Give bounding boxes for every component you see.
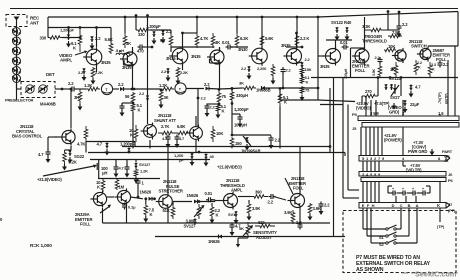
transistor Q15 2N329A b xyxy=(114,188,130,205)
cap 4.7 ps xyxy=(230,223,235,237)
svg-text:2.2: 2.2 xyxy=(296,220,302,225)
cap 2.2 ef3 xyxy=(319,202,324,216)
connector bar J6 xyxy=(359,172,446,177)
resistor 3K s3 xyxy=(211,33,215,48)
connector bar J7 xyxy=(359,203,450,209)
resistor 75 e6 xyxy=(300,86,305,101)
svg-text:J6: J6 xyxy=(448,172,453,177)
resistor 3K s2 xyxy=(123,33,127,48)
zener pair SV121 xyxy=(384,84,393,90)
resistor 3.9K ef3 xyxy=(308,203,313,221)
zener 2.2 e6 xyxy=(297,62,304,68)
cap 2.2 pre xyxy=(70,87,77,92)
svg-text:2.2: 2.2 xyxy=(68,81,74,86)
wire q3 out xyxy=(171,47,210,70)
svg-text:4.7: 4.7 xyxy=(119,166,125,171)
wire 232b xyxy=(231,101,234,114)
svg-text:1N626: 1N626 xyxy=(208,239,220,244)
svg-text:75: 75 xyxy=(222,94,227,99)
wire q11 emitter xyxy=(70,146,72,147)
rf row wire xyxy=(61,88,70,91)
svg-text:3N35: 3N35 xyxy=(101,60,111,65)
svg-text:330μH: 330μH xyxy=(236,93,248,98)
resistor 270 xyxy=(362,94,378,98)
resistor 390 xyxy=(238,195,268,199)
zener 2.2 s1 xyxy=(90,36,95,50)
svg-text:40: 40 xyxy=(210,154,215,159)
resistor 3.3K xyxy=(364,28,399,32)
connector bar J8 xyxy=(359,156,450,162)
svg-text:390: 390 xyxy=(255,190,262,195)
cap 1200 c xyxy=(232,114,243,128)
svg-text:1.2K: 1.2K xyxy=(159,83,167,88)
q11 wires xyxy=(55,88,72,137)
svg-text:J5: J5 xyxy=(352,126,357,131)
svg-text:P5: P5 xyxy=(352,112,358,117)
svg-text:4.7K: 4.7K xyxy=(200,36,208,41)
drop to Q12 xyxy=(146,14,149,124)
junction top rail xyxy=(317,16,320,100)
wire 280 down xyxy=(279,106,281,149)
rail stage1 sub xyxy=(48,17,111,38)
svg-text:THRESHOLD: THRESHOLD xyxy=(362,39,387,44)
q2 wires xyxy=(119,47,134,89)
varactor V6 xyxy=(12,75,21,83)
rec antenna dashed box xyxy=(6,15,27,27)
svg-text:0: 0 xyxy=(0,217,3,222)
zener 2.2 e5 xyxy=(247,66,252,80)
wire q18 xyxy=(299,147,301,224)
svg-text:3N35: 3N35 xyxy=(320,64,330,69)
mid rail B xyxy=(88,152,345,154)
svg-text:SV127: SV127 xyxy=(184,224,197,229)
svg-text:330: 330 xyxy=(40,36,47,41)
transistor Q17 threshold xyxy=(221,192,238,210)
q4 wires xyxy=(210,47,221,89)
resistor 5.6K b xyxy=(260,33,264,48)
resistor 9.1K xyxy=(78,26,82,52)
svg-text:4: 4 xyxy=(402,156,405,161)
switch S0 xyxy=(386,225,397,230)
svg-text:3.9K: 3.9K xyxy=(252,206,260,211)
resistor 4.7K a xyxy=(195,33,199,48)
wire right edge v xyxy=(448,60,455,114)
svg-text:270: 270 xyxy=(365,89,372,94)
wires into J5 xyxy=(366,96,455,116)
transistor Q13 shunt b xyxy=(187,125,203,142)
svg-text:4.7: 4.7 xyxy=(415,85,421,90)
resistor 1M xyxy=(115,179,119,191)
resistor 330 b xyxy=(136,28,150,32)
svg-text:SV121: SV121 xyxy=(389,76,402,81)
cap 4.7 r xyxy=(409,85,414,98)
transistor Q8 EF xyxy=(351,17,370,65)
transistor Q4 3N35 xyxy=(207,48,224,66)
thermistor T2 xyxy=(175,83,186,94)
diode 2.2 b xyxy=(206,87,220,91)
svg-text:DET: DET xyxy=(46,72,55,77)
resistor 3.9K br xyxy=(291,210,295,224)
svg-text:GRD): GRD) xyxy=(389,110,400,115)
svg-text:FOLL: FOLL xyxy=(355,68,366,73)
svg-text:4.7: 4.7 xyxy=(38,152,44,157)
switch wires right xyxy=(396,208,417,243)
svg-text:5.6K: 5.6K xyxy=(265,36,273,41)
svg-text:ADJUST: ADJUST xyxy=(256,235,272,240)
choke 100uH m xyxy=(97,160,99,179)
svg-text:D: D xyxy=(392,203,395,208)
svg-text:PWR GRD: PWR GRD xyxy=(408,149,427,154)
svg-text:STRETCHER: STRETCHER xyxy=(159,189,183,194)
cap 4.7 sb xyxy=(175,135,180,149)
transistor Q5 3N35 xyxy=(249,46,268,66)
gnd sens xyxy=(236,238,248,248)
arrow 2n329a xyxy=(100,205,111,214)
tuning varactor V4 xyxy=(12,57,21,65)
svg-text:T: T xyxy=(179,87,182,91)
cap branch 56 xyxy=(120,103,134,117)
cap 4.7 m2a xyxy=(114,160,119,178)
cap 2.2 th xyxy=(269,194,287,200)
feeder vertical a xyxy=(333,78,335,237)
cap 40 xyxy=(204,154,209,167)
transistor Q1 3N35 xyxy=(83,47,102,67)
svg-text:+21.9(VIDEO): +21.9(VIDEO) xyxy=(217,165,242,170)
wire right col a xyxy=(362,78,401,105)
svg-text:AS SHOWN: AS SHOWN xyxy=(356,267,384,273)
wire vid tr xyxy=(403,161,406,166)
zener SV127 b xyxy=(234,211,239,224)
wire cap a xyxy=(67,26,70,34)
svg-text:2.2K: 2.2K xyxy=(180,70,188,75)
cap 4.7 m2b xyxy=(125,160,130,178)
zener SV127 m xyxy=(134,160,138,169)
drop to Q13 xyxy=(197,89,200,126)
svg-text:2,200: 2,200 xyxy=(257,66,267,71)
wire 232 down xyxy=(231,87,234,91)
resistor 2.7K xyxy=(158,131,176,135)
resistor 1.2K m xyxy=(134,169,139,184)
rail seg loop2 xyxy=(135,14,138,30)
transistor Q11 crystal bias xyxy=(59,128,75,145)
svg-text:2.2: 2.2 xyxy=(286,68,292,73)
arrow ef3 xyxy=(285,178,293,194)
svg-text:K: K xyxy=(138,108,141,113)
border frame top line xyxy=(10,8,458,10)
gnd video grd xyxy=(392,103,397,110)
svg-text:1 6: 1 6 xyxy=(438,111,444,116)
cap 1200pF b xyxy=(152,31,157,45)
svg-text:(TP): (TP) xyxy=(437,224,445,229)
svg-text:1,200pF: 1,200pF xyxy=(146,24,161,29)
svg-text:2.2 K: 2.2 K xyxy=(300,36,309,41)
resistor 9.1K b xyxy=(150,30,173,47)
connector bar J5 xyxy=(362,123,459,128)
wire q10 right xyxy=(428,12,458,61)
node dot rf1 xyxy=(133,88,136,91)
svg-text:3N35: 3N35 xyxy=(122,65,132,70)
cap 2.2 tr xyxy=(397,24,402,38)
wires J5 to J8 xyxy=(361,127,403,156)
cap 4.7 sa xyxy=(166,135,171,149)
cap 2.2 mid xyxy=(281,67,286,89)
wire T1 to diode xyxy=(113,88,119,90)
svg-text:1,200pF: 1,200pF xyxy=(234,107,249,112)
cap 22uF xyxy=(403,100,408,113)
rf row wire 1b xyxy=(76,88,86,90)
transistor Q14 2N329A a xyxy=(90,190,106,207)
wire ant to preselector xyxy=(17,84,22,89)
zener SV127 r xyxy=(391,84,399,96)
preselector varactor 1 xyxy=(25,85,35,93)
svg-text:5K: 5K xyxy=(239,226,244,231)
resistor 620 xyxy=(255,224,275,228)
svg-text:1K: 1K xyxy=(390,67,395,72)
zener 1N1995 xyxy=(243,136,251,151)
svg-text:8: 8 xyxy=(438,156,441,161)
resistor 2200 xyxy=(271,64,276,85)
svg-text:AMPL: AMPL xyxy=(60,58,73,63)
wire q7 xyxy=(318,40,352,56)
svg-text:3N35: 3N35 xyxy=(166,56,176,61)
svg-text:4.7: 4.7 xyxy=(97,142,103,147)
svg-text:K: K xyxy=(222,109,225,114)
svg-text:R=K 1,000: R=K 1,000 xyxy=(30,243,52,249)
wire T2 out xyxy=(186,88,204,90)
svg-text:1,200pF: 1,200pF xyxy=(60,28,75,33)
svg-text:K: K xyxy=(432,68,435,72)
transistor Q9 switch xyxy=(392,48,406,63)
resistor 10K sb xyxy=(211,126,215,142)
connector bar P5 xyxy=(358,116,459,121)
svg-text:1: 1 xyxy=(142,181,145,186)
svg-text:T: T xyxy=(105,88,108,92)
resistor 6.8K xyxy=(176,131,190,135)
rail AB join xyxy=(329,147,331,153)
resistor 3K b xyxy=(159,89,164,109)
coil 330uH xyxy=(230,91,234,101)
node 199 xyxy=(198,151,201,154)
svg-text:SWITCH: SWITCH xyxy=(411,44,427,49)
svg-text:2.2: 2.2 xyxy=(305,57,311,62)
svg-text:1.2K: 1.2K xyxy=(140,169,148,174)
resistor 3K row xyxy=(242,86,256,90)
gnd pwr grd xyxy=(430,149,435,156)
rf row wire 2 xyxy=(134,88,160,90)
svg-text:1N626: 1N626 xyxy=(140,190,152,195)
svg-text:SeekIC.com: SeekIC.com xyxy=(415,270,457,279)
svg-text:F: F xyxy=(367,203,370,208)
feeder wire c xyxy=(320,104,343,106)
resistor 2.2K e1 xyxy=(91,67,96,85)
svg-text:H: H xyxy=(372,203,375,208)
svg-text:2.2: 2.2 xyxy=(204,82,210,87)
diode 1N986B xyxy=(262,86,282,90)
pot 5K sensitivity xyxy=(243,222,253,238)
resistor 56 xyxy=(131,92,135,103)
wire K TP xyxy=(439,208,441,222)
svg-text:150: 150 xyxy=(235,141,242,146)
svg-text:A: A xyxy=(416,203,419,208)
svg-text:C: C xyxy=(400,203,403,208)
svg-text:2.7K: 2.7K xyxy=(161,124,169,129)
cap 0.01 ps xyxy=(206,197,215,202)
svg-text:+21.8(VIDEO): +21.8(VIDEO) xyxy=(37,177,62,182)
svg-text:2.2: 2.2 xyxy=(118,82,124,87)
svg-text:6.8K: 6.8K xyxy=(177,124,185,129)
cap 4.7 m xyxy=(105,143,110,156)
svg-text:2.2: 2.2 xyxy=(78,70,84,75)
cap 2.2 ef8 xyxy=(378,57,383,64)
coil .5uH xyxy=(116,53,130,55)
svg-text:3N30: 3N30 xyxy=(238,47,248,52)
svg-text:SV127: SV127 xyxy=(139,162,151,167)
svg-text:330: 330 xyxy=(138,32,145,37)
svg-text:3K: 3K xyxy=(126,41,131,46)
tuning varactor V3 xyxy=(12,47,21,55)
svg-text:K: K xyxy=(130,133,133,138)
transistor Q6 3N35 xyxy=(284,47,302,66)
svg-text:SG22: SG22 xyxy=(74,154,85,159)
svg-text:2.2: 2.2 xyxy=(241,66,247,71)
coil 100uH c xyxy=(231,114,234,136)
transistor Q12 shunt a xyxy=(141,123,157,140)
wire 5.1K down xyxy=(132,112,134,149)
cap 4.7 cb xyxy=(46,137,58,163)
resistor 5.1K e6 xyxy=(300,74,304,84)
svg-text:+: + xyxy=(402,187,404,191)
svg-text:470: 470 xyxy=(137,49,144,54)
resistor 7.5K bl xyxy=(143,199,148,223)
transistor Q10 2N697 xyxy=(417,46,431,61)
switch S2 xyxy=(386,239,397,244)
thermistor T1 xyxy=(101,83,112,94)
resistor 1K q xyxy=(394,62,398,78)
wire bl2 xyxy=(137,179,140,199)
rf row wire 3 xyxy=(219,87,242,90)
resistor 15K xyxy=(300,67,304,75)
diode 2.2 a xyxy=(120,87,134,91)
resistor 51K xyxy=(171,202,175,219)
rail drop s6 xyxy=(296,16,299,33)
svg-text:1: 1 xyxy=(366,156,369,161)
svg-text:2.2: 2.2 xyxy=(324,203,330,208)
wire preselector out xyxy=(55,88,62,90)
rail drop s3 xyxy=(183,16,199,33)
svg-text:9K: 9K xyxy=(160,38,165,43)
resistor 6.2K xyxy=(235,33,239,48)
resistor 1.2K b xyxy=(160,87,174,91)
svg-text:MA406B: MA406B xyxy=(40,102,56,107)
wire antenna down xyxy=(16,27,18,101)
resistor 2.2K e3 xyxy=(176,67,181,85)
wire q6 xyxy=(295,32,298,48)
zener 2.2 drop xyxy=(146,95,150,101)
svg-text:0.01: 0.01 xyxy=(340,40,348,45)
cap 470 xyxy=(138,45,145,50)
resistor 2.2K s6 xyxy=(295,33,299,48)
svg-text:0.1μ: 0.1μ xyxy=(128,205,136,210)
svg-text:2.2: 2.2 xyxy=(268,200,274,205)
svg-text:+: + xyxy=(422,187,424,191)
zener SG22 xyxy=(68,150,73,164)
svg-text:2: 2 xyxy=(374,156,377,161)
diode 1N626 b xyxy=(173,200,215,204)
mid rail C xyxy=(98,178,160,180)
svg-text:3: 3 xyxy=(370,156,373,161)
svg-text:SHUNT ATT: SHUNT ATT xyxy=(154,118,177,123)
svg-text:2.2: 2.2 xyxy=(161,69,167,74)
right rail y77 xyxy=(311,77,458,79)
svg-text:3.9K: 3.9K xyxy=(284,210,292,215)
svg-text:+: + xyxy=(392,187,394,191)
resistor 2.2K q17 xyxy=(210,203,215,224)
svg-text:0.01: 0.01 xyxy=(205,191,213,196)
wire shunt a xyxy=(149,140,151,149)
wire rail c up xyxy=(344,153,346,157)
transistor Q2 3N35 xyxy=(120,50,137,68)
wire video ampl arrow xyxy=(75,51,88,55)
svg-text:(VIDEO): (VIDEO) xyxy=(356,106,372,111)
svg-text:-7V(TP): -7V(TP) xyxy=(438,92,442,104)
svg-text:R40: R40 xyxy=(344,20,352,25)
coil 100uH b xyxy=(350,48,352,78)
svg-text:P6: P6 xyxy=(448,178,454,183)
rail drop s5 xyxy=(236,16,239,33)
resistor 6.2K cb xyxy=(62,146,71,171)
wire q5 coll xyxy=(261,16,264,48)
svg-text:pF: pF xyxy=(179,158,184,163)
svg-text:4.7K: 4.7K xyxy=(77,142,85,147)
cap 2.2 q10 xyxy=(438,61,443,68)
switch wires left xyxy=(363,208,386,243)
svg-text:9: 9 xyxy=(382,156,385,161)
wires J6 to J7 xyxy=(363,182,440,203)
resistor 5.1K d xyxy=(216,103,221,119)
top rail xyxy=(48,12,458,18)
svg-text:2.2: 2.2 xyxy=(417,61,422,65)
svg-text:1N1995AR: 1N1995AR xyxy=(241,149,261,154)
svg-text:10K: 10K xyxy=(216,131,223,136)
svg-text:100 μH: 100 μH xyxy=(234,123,247,128)
wire v1 xyxy=(96,70,98,72)
svg-text:6.2K: 6.2K xyxy=(240,36,248,41)
tuning varactor V1 xyxy=(12,28,21,36)
zener SV127 a xyxy=(193,219,197,225)
external switch dashed box xyxy=(343,211,456,273)
tuning varactor V5 xyxy=(12,67,21,75)
q3 collector xyxy=(181,32,184,48)
cap 1 bl xyxy=(136,179,141,186)
svg-text:(POWER): (POWER) xyxy=(384,138,402,143)
mid rail A xyxy=(122,146,330,148)
wire q17 xyxy=(215,200,221,202)
resistor 5.6K a xyxy=(109,28,113,55)
connector bar P6 xyxy=(361,178,446,182)
cap 0.01 a xyxy=(226,45,249,50)
svg-text:J7: J7 xyxy=(448,202,453,207)
svg-text:3K: 3K xyxy=(215,40,220,45)
wire loop2 xyxy=(170,47,172,52)
q1 collector wire xyxy=(95,26,98,47)
svg-text:3.9K: 3.9K xyxy=(372,68,376,76)
svg-text:620: 620 xyxy=(258,220,265,225)
resistor 3K q xyxy=(78,89,83,111)
wires J8 to J6 xyxy=(363,161,379,172)
wire stage1 out xyxy=(96,65,98,70)
svg-text:FOLL: FOLL xyxy=(80,222,91,227)
svg-text:15K: 15K xyxy=(305,67,312,72)
